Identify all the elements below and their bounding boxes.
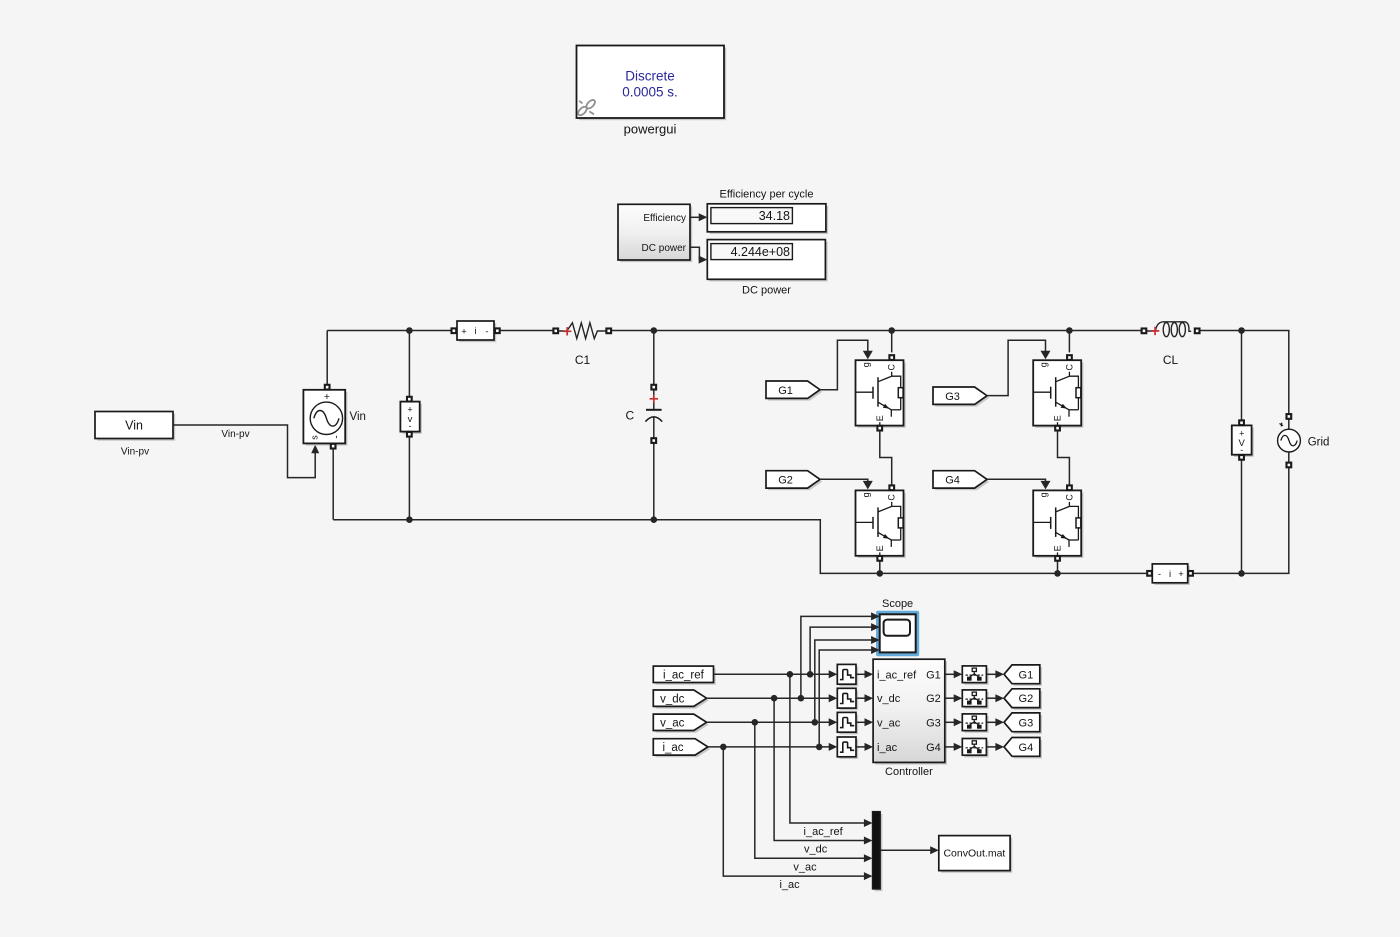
data type conversion 1: [962, 666, 988, 685]
node v_ac/mux: [752, 719, 759, 726]
data type conversion 2: [962, 690, 988, 709]
resistor C1: [553, 323, 611, 339]
svg-text:-: -: [485, 326, 488, 337]
svg-text:+: +: [461, 326, 467, 337]
Goto tag G3: [1006, 715, 1042, 734]
wire Efficiency -> display: [690, 216, 699, 218]
wire rate1 to controller: [856, 673, 866, 675]
wire mux to ConvOut.mat: [880, 849, 931, 851]
svg-text:C: C: [1064, 494, 1074, 501]
svg-text:-: -: [409, 421, 412, 431]
svg-text:powergui: powergui: [624, 122, 677, 137]
node top rail / Vac: [1238, 327, 1245, 334]
svg-text:34.18: 34.18: [759, 209, 790, 223]
wire i_ac_ref to rate transition 1: [714, 673, 830, 675]
svg-text:v_dc: v_dc: [877, 693, 901, 705]
data type conversion 3: [962, 714, 988, 733]
svg-text:g: g: [861, 492, 871, 497]
svg-text:G2: G2: [926, 693, 941, 705]
IGBT Q1: [856, 355, 906, 430]
svg-text:g: g: [861, 362, 871, 367]
From tag G4: [935, 473, 989, 490]
wire G1 to IGBT1 gate: [820, 340, 868, 389]
svg-text:i_ac_ref: i_ac_ref: [804, 826, 844, 838]
subsystem Controller: [873, 659, 947, 764]
wire Vin + up to top rail: [326, 331, 328, 385]
wire top rail to IGBT1 collector: [891, 331, 893, 353]
svg-text:Efficiency per cycle: Efficiency per cycle: [720, 189, 814, 201]
node v_dc/scope: [798, 695, 805, 702]
wire IGBT3 emitter to IGBT4 collector: [1058, 431, 1070, 485]
wire conversion 2 to Goto G2: [986, 697, 996, 699]
svg-text:v_dc: v_dc: [804, 843, 828, 855]
svg-text:v_ac: v_ac: [877, 717, 901, 729]
wire v_ac to rate transition 3: [707, 721, 830, 723]
wire top rail to voltage measurement Vac: [1241, 331, 1243, 421]
scope block (selected): [876, 611, 919, 656]
node bottom rail / C: [651, 516, 658, 523]
node i_ac/mux: [720, 744, 727, 751]
subsystem Efficiency/DC power: [618, 204, 692, 262]
svg-text:+: +: [1239, 429, 1244, 439]
svg-text:G4: G4: [1019, 742, 1034, 754]
node bottom rail / Vac: [1238, 570, 1245, 577]
wire controller G2 to conversion 2: [945, 697, 955, 699]
wire i_ac branch to mux input 4: [723, 747, 865, 876]
rate transition 3: [837, 712, 858, 734]
wire controller G1 to conversion 1: [945, 673, 955, 675]
svg-text:i_ac: i_ac: [662, 742, 683, 754]
svg-text:G2: G2: [1019, 693, 1034, 705]
From tag i_ac_ref (rectangle): [653, 666, 715, 685]
capacitor C: [645, 385, 662, 443]
controlled voltage source Vin: [303, 385, 347, 449]
voltage measurement Vdc "+ v -": [400, 397, 422, 437]
node bottom rail / IGBT2: [877, 570, 884, 577]
wire conversion 3 to Goto G3: [986, 721, 996, 723]
svg-text:G2: G2: [778, 474, 793, 486]
svg-text:g: g: [1039, 492, 1049, 497]
IGBT Q3: [1033, 355, 1083, 430]
node v_ac/scope: [812, 719, 819, 726]
svg-text:G4: G4: [926, 742, 941, 754]
svg-text:i_ac_ref: i_ac_ref: [663, 670, 705, 682]
svg-text:Discrete: Discrete: [625, 69, 675, 84]
svg-text:+: +: [1178, 569, 1184, 580]
current measurement Igrid "- i +": [1147, 564, 1193, 585]
display DC power: [707, 240, 827, 282]
wire G2 to IGBT2 gate: [820, 479, 868, 482]
svg-text:G3: G3: [1019, 717, 1034, 729]
wire Vdc to bottom rail: [408, 437, 410, 520]
From tag G1: [768, 383, 822, 400]
wire v_ac branch to mux input 3: [755, 722, 865, 858]
wire i_ac branch to scope input 4: [819, 650, 872, 747]
svg-text:G4: G4: [945, 474, 960, 486]
node i_ac_ref/scope: [807, 671, 814, 678]
wire Vac to bottom rail: [1241, 460, 1243, 573]
To File ConvOut.mat: [939, 836, 1013, 873]
wire controller G3 to conversion 3: [945, 721, 955, 723]
svg-text:s: s: [310, 435, 320, 440]
wire G4 to IGBT4 gate: [987, 479, 1045, 482]
wire G3 to IGBT3 gate: [987, 340, 1045, 395]
svg-text:i_ac: i_ac: [780, 879, 801, 891]
svg-text:v_ac: v_ac: [793, 861, 817, 873]
wire top rail to capacitor C: [653, 331, 655, 385]
node i_ac/scope: [816, 744, 823, 751]
wire Vin - down to bottom rail: [332, 449, 334, 520]
wire IGBT4 emitter to bottom rail: [1057, 562, 1059, 574]
svg-text:G1: G1: [1019, 669, 1034, 681]
svg-text:-: -: [1240, 445, 1243, 455]
wire top rail to IGBT3 collector: [1068, 331, 1070, 353]
svg-text:ConvOut.mat: ConvOut.mat: [943, 848, 1005, 860]
svg-text:i_ac: i_ac: [877, 742, 898, 754]
wire rate4 to controller: [856, 746, 866, 748]
wire rate3 to controller: [856, 721, 866, 723]
rate transition 1: [837, 664, 858, 686]
node bottom rail / IGBT4: [1054, 570, 1061, 577]
IGBT Q4: [1033, 485, 1083, 560]
svg-text:E: E: [1053, 545, 1063, 551]
wire v_dc to rate transition 2: [707, 697, 830, 699]
svg-text:E: E: [875, 415, 885, 421]
svg-text:DC power: DC power: [742, 285, 791, 297]
svg-text:C: C: [887, 494, 897, 501]
svg-text:C1: C1: [575, 353, 591, 367]
AC source Grid: [1278, 414, 1301, 467]
wire IGBT1 emitter to IGBT2 collector: [880, 431, 892, 485]
node bottom rail / Vdc: [406, 516, 413, 523]
wire v_dc branch to mux input 2: [774, 698, 865, 840]
bottom rail wire: [333, 520, 1146, 574]
node top rail / C: [651, 327, 658, 334]
wire Vin-pv to controlled source s input: [173, 425, 315, 478]
svg-text:G3: G3: [926, 717, 941, 729]
wire top rail to voltage measurement Vdc: [408, 331, 410, 400]
node top rail / IGBT3: [1066, 327, 1073, 334]
svg-text:Controller: Controller: [885, 766, 933, 778]
wire conversion 4 to Goto G4: [986, 746, 996, 748]
svg-text:v_dc: v_dc: [660, 693, 685, 705]
svg-text:G3: G3: [945, 391, 960, 403]
Vin source tag block: [95, 412, 175, 441]
svg-text:+: +: [324, 391, 330, 403]
svg-text:Grid: Grid: [1308, 436, 1330, 448]
svg-text:E: E: [1053, 415, 1063, 421]
From tag G3: [935, 389, 989, 406]
wire i_ac to rate transition 4: [708, 746, 830, 748]
From tag v_dc: [656, 692, 709, 708]
svg-text:DC power: DC power: [642, 243, 687, 254]
Goto tag G4: [1006, 740, 1042, 759]
wire i_ac_ref branch to mux input 1: [790, 674, 865, 823]
svg-text:C: C: [1064, 363, 1074, 370]
svg-text:C: C: [887, 363, 897, 370]
node v_dc/mux: [771, 695, 778, 702]
Goto tag G2: [1006, 691, 1042, 710]
wire i_ac_ref branch to scope input 2: [810, 627, 872, 674]
svg-text:4.244e+08: 4.244e+08: [731, 245, 790, 259]
svg-text:+: +: [407, 404, 412, 414]
inductor CL: [1142, 322, 1200, 337]
powergui block: [577, 46, 727, 121]
svg-text:g: g: [1039, 362, 1049, 367]
IGBT Q2: [856, 485, 906, 560]
data type conversion 4: [962, 739, 988, 758]
svg-text:0.0005 s.: 0.0005 s.: [622, 85, 678, 100]
svg-text:Vin-pv: Vin-pv: [121, 447, 149, 458]
From tag v_ac: [656, 716, 709, 732]
svg-text:Efficiency: Efficiency: [643, 213, 686, 224]
node top rail / IGBT1: [888, 327, 895, 334]
Goto tag G1: [1006, 667, 1042, 686]
svg-text:Vin-pv: Vin-pv: [221, 429, 249, 440]
svg-text:i_ac_ref: i_ac_ref: [877, 669, 917, 681]
From tag G2: [768, 473, 822, 490]
svg-text:G1: G1: [778, 385, 793, 397]
svg-text:E: E: [875, 545, 885, 551]
svg-text:-: -: [1158, 569, 1161, 580]
svg-text:v_ac: v_ac: [660, 717, 685, 729]
svg-text:Vin: Vin: [350, 411, 366, 423]
svg-text:i: i: [1169, 569, 1171, 580]
wire controller G4 to conversion 4: [945, 746, 955, 748]
svg-text:G1: G1: [926, 669, 941, 681]
svg-text:i: i: [474, 326, 476, 337]
svg-text:Vin: Vin: [125, 419, 143, 433]
wire capacitor C to bottom rail: [653, 443, 655, 519]
svg-text:CL: CL: [1163, 353, 1179, 367]
rate transition 2: [837, 688, 858, 710]
svg-text:Scope: Scope: [882, 598, 913, 610]
wire v_ac branch to scope input 3: [815, 640, 872, 722]
wire DC power -> display: [690, 247, 699, 259]
current measurement Iin "+ i -": [452, 321, 500, 342]
display Efficiency per cycle: [707, 204, 828, 234]
rate transition 4: [837, 737, 858, 759]
wire rate2 to controller: [856, 697, 866, 699]
voltage measurement Vac "+ V -": [1232, 420, 1254, 459]
wire IGBT2 emitter to bottom rail: [879, 562, 881, 574]
svg-text:C: C: [625, 408, 634, 422]
wire conversion 1 to Goto G1: [986, 673, 996, 675]
mux: [873, 812, 883, 892]
svg-text:-: -: [332, 435, 343, 438]
From tag i_ac: [656, 741, 711, 757]
node top rail / Vdc: [406, 327, 413, 334]
top rail wire: [327, 330, 451, 332]
node i_ac_ref/mux: [787, 671, 794, 678]
wire v_dc branch to scope input 1: [801, 616, 872, 698]
